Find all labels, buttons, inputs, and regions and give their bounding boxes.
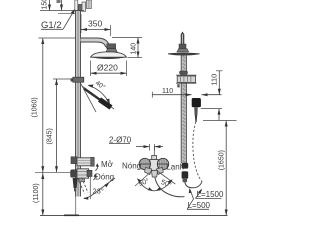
label L=500 with leader — [187, 188, 211, 210]
label L=1500 with leader — [196, 189, 224, 200]
svg-text:40°: 40° — [94, 79, 107, 92]
pipe connector bulge — [180, 71, 188, 74]
svg-text:(845): (845) — [46, 128, 53, 144]
svg-text:Đóng: Đóng — [95, 173, 114, 182]
head (side view slab) — [168, 53, 200, 55]
dim 140 — [112, 38, 142, 58]
dim 45 (top, cut off) — [57, 0, 64, 11]
23deg pointer line — [91, 178, 115, 196]
hand shower (tilted, solid) — [84, 89, 111, 108]
dim 350 — [81, 14, 111, 36]
svg-text:150: 150 — [42, 0, 49, 10]
side view pipe — [181, 56, 186, 164]
dim (1060) — [32, 38, 76, 172]
left handle (knurled) — [139, 158, 151, 170]
hand shower hanging (solid) — [73, 178, 78, 191]
svg-text:140: 140 — [130, 43, 137, 55]
supply line below valve — [75, 197, 77, 216]
hand shower hose (dashed) — [193, 122, 202, 182]
hand shower in holder (side view) — [192, 98, 201, 122]
bracket stub on pipe — [177, 84, 179, 87]
svg-text:Ø220: Ø220 — [97, 63, 118, 73]
detail stem width dim — [136, 144, 163, 156]
pipe bottom connectors — [182, 163, 189, 182]
svg-text:2-Ø70: 2-Ø70 — [109, 135, 132, 144]
label G1/2 with leader — [41, 9, 75, 31]
svg-text:Nóng: Nóng — [122, 161, 141, 170]
dim 110 (horizontal) — [152, 88, 191, 98]
svg-text:23°: 23° — [93, 187, 104, 196]
svg-text:Lạnh: Lạnh — [166, 162, 184, 171]
head stem (side view) — [177, 32, 189, 53]
dim (1100) — [33, 172, 45, 215]
valve wings — [145, 168, 164, 175]
svg-text:110: 110 — [209, 74, 218, 86]
valve block (side view) — [176, 75, 196, 83]
tilt line (hand shower 40 deg position) — [82, 86, 114, 109]
valve centre extension line — [35, 171, 73, 173]
stop valve upper handle (front view) — [71, 157, 94, 166]
svg-text:Mở: Mở — [101, 160, 114, 169]
svg-text:50°: 50° — [138, 177, 151, 188]
dim 150 (top-left, cut off) — [40, 0, 84, 13]
shower arm — [81, 40, 110, 48]
wall supply assembly (top) — [75, 0, 92, 11]
open rotation arrow — [95, 165, 98, 171]
hand shower swung 23deg (dashed) — [78, 178, 88, 194]
valve spout — [151, 171, 157, 178]
dim (1650) — [203, 121, 237, 216]
23deg reference line — [89, 174, 91, 199]
svg-text:50°: 50° — [160, 178, 173, 189]
shower column (front view pipe) — [76, 11, 81, 197]
tilt line (hand shower vertical position) — [81, 83, 97, 112]
right handle (knurled) — [157, 158, 168, 169]
dim (845) — [46, 79, 73, 172]
23deg arc with arrow — [84, 196, 90, 198]
dim 110 (vertical) — [209, 71, 222, 95]
floor line — [40, 215, 228, 217]
holder bottom extension + arrow — [201, 109, 222, 121]
svg-text:350: 350 — [88, 19, 102, 29]
arm nut / connector — [106, 44, 118, 53]
mixing valve detail body — [150, 156, 158, 171]
svg-text:110: 110 — [162, 88, 173, 95]
svg-text:(1650): (1650) — [218, 150, 225, 170]
svg-text:(1100): (1100) — [33, 183, 40, 203]
50 deg rotation lines — [135, 170, 175, 186]
short hose (solid U) — [185, 182, 202, 188]
50 deg arcs — [137, 178, 173, 191]
hand shower holder clamp on column — [71, 77, 84, 82]
rain shower head (front view) — [91, 52, 127, 59]
detail spout hose — [155, 177, 185, 197]
svg-text:(1060): (1060) — [32, 97, 39, 117]
rotation arrow (dong) — [93, 175, 95, 180]
label 2-O70 — [109, 135, 132, 144]
holder width arrows — [202, 93, 222, 96]
dim O220 — [91, 61, 127, 77]
40 deg arc — [88, 85, 110, 105]
wall mixing valve (front view) — [71, 169, 92, 182]
